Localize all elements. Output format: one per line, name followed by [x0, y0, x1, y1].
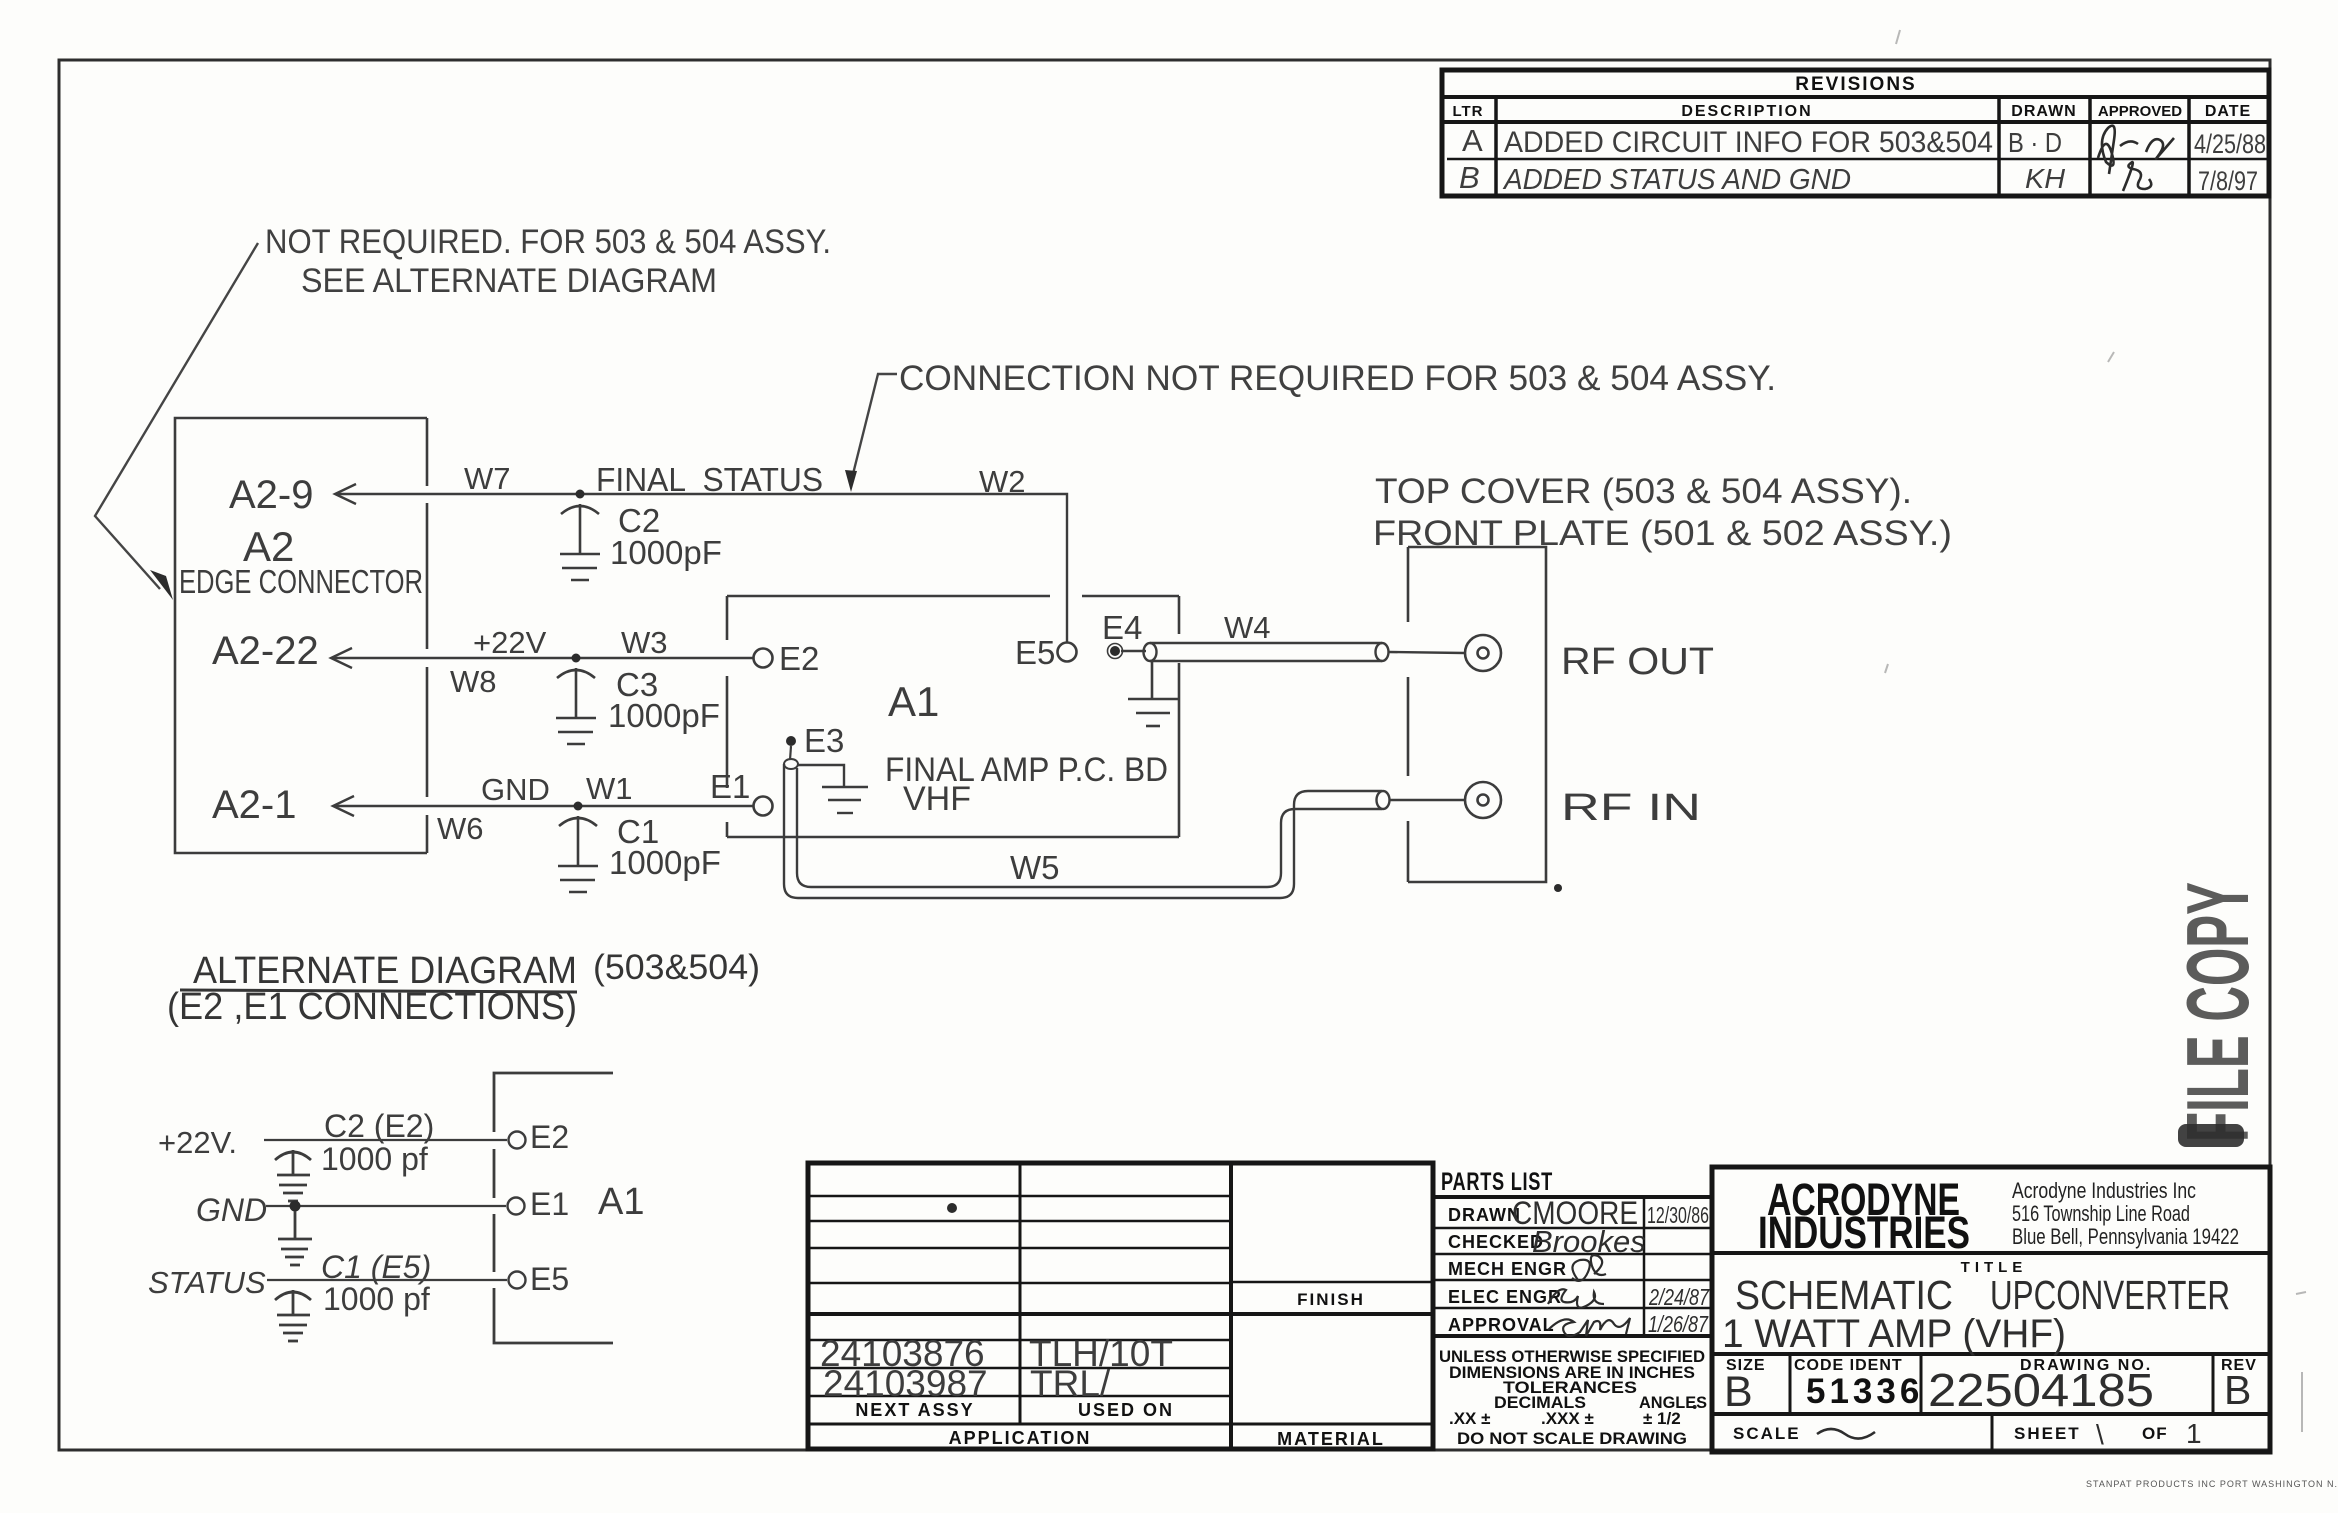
A2 edge connector box: [175, 418, 427, 853]
svg-text:E5: E5: [530, 1261, 569, 1297]
svg-text:FILE COPY: FILE COPY: [2168, 882, 2267, 1142]
svg-text:TOP COVER (503 & 504 ASSY).: TOP COVER (503 & 504 ASSY).: [1375, 472, 1912, 511]
front plate / top cover panel: [1408, 547, 1546, 882]
svg-text:B · D: B · D: [2008, 127, 2062, 158]
svg-text:VHF: VHF: [903, 780, 971, 818]
terminal E5 (alternate): [509, 1272, 526, 1289]
terminal E1 circle: [754, 797, 773, 816]
svg-text:Acrodyne Industries Inc: Acrodyne Industries Inc: [2012, 1178, 2196, 1203]
svg-text:C1 (E5): C1 (E5): [321, 1249, 431, 1285]
leader line from note to A2 connector: [95, 243, 258, 589]
FILE COPY stamp: [2168, 882, 2267, 1142]
wire E4 to coax W4: [1121, 650, 1146, 652]
handwritten title: [1722, 1272, 2230, 1356]
capacitor C3: [556, 668, 596, 744]
terminal E2 circle: [754, 649, 773, 668]
svg-text:1/26/87: 1/26/87: [1648, 1311, 1709, 1337]
leader from note down to FINAL STATUS wire: [851, 374, 897, 482]
svg-text:A2-9: A2-9: [229, 473, 314, 517]
svg-text:E3: E3: [804, 722, 844, 759]
scale squiggle: [1817, 1429, 1875, 1439]
svg-text:ELEC ENGR: ELEC ENGR: [1448, 1287, 1562, 1307]
svg-text:ADDED STATUS AND GND: ADDED STATUS AND GND: [1502, 164, 1851, 196]
ground stub below GND junction: [278, 1211, 312, 1265]
svg-text:W3: W3: [621, 625, 668, 660]
svg-text:+22V: +22V: [473, 625, 547, 660]
svg-text:B: B: [1724, 1368, 1753, 1416]
svg-text:W2: W2: [979, 464, 1026, 499]
svg-text:1000pF: 1000pF: [609, 844, 721, 881]
elec engr signature: [1548, 1289, 1604, 1307]
svg-text:CONNECTION NOT REQUIRED FOR 50: CONNECTION NOT REQUIRED FOR 503 & 504 AS…: [899, 359, 1776, 398]
terminal E5 circle: [1058, 643, 1077, 662]
svg-text:1000 pf: 1000 pf: [321, 1141, 428, 1177]
capacitor C2: [560, 504, 600, 580]
svg-text:DESCRIPTION: DESCRIPTION: [1681, 103, 1812, 120]
svg-text:A1: A1: [598, 1181, 644, 1223]
panel corner dot: [1554, 884, 1562, 892]
svg-text:51336: 51336: [1806, 1372, 1923, 1411]
A1 bracket (alternate): [494, 1073, 613, 1343]
svg-text:± 1/2: ± 1/2: [1643, 1409, 1681, 1428]
svg-text:24103987: 24103987: [823, 1363, 988, 1404]
svg-text:LTR: LTR: [1452, 103, 1483, 120]
svg-text:7/8/97: 7/8/97: [2198, 166, 2258, 196]
revisions table: [1442, 70, 2269, 196]
parts list title block: [1433, 1197, 1712, 1336]
svg-text:A2-1: A2-1: [212, 783, 297, 827]
approval signature: [1548, 1318, 1630, 1336]
svg-text:CHECKED: CHECKED: [1448, 1232, 1544, 1252]
svg-text:APPROVED: APPROVED: [2098, 103, 2182, 120]
svg-text:\: \: [2096, 1419, 2104, 1450]
svg-text:B: B: [2224, 1367, 2251, 1413]
svg-text:W5: W5: [1010, 849, 1060, 886]
node junction on GND: [290, 1201, 301, 1212]
svg-text:E2: E2: [530, 1119, 569, 1155]
wire W1/W6 (GND, A2-1 to E1): [333, 796, 753, 816]
node junction on W1: [574, 802, 583, 811]
note: NOT REQUIRED FOR 503 & 504 ASSY / SEE ALTERNATE DIAGRAM: [265, 223, 831, 300]
svg-text:RF IN: RF IN: [1561, 787, 1701, 829]
svg-text:.XXX ±: .XXX ±: [1541, 1409, 1594, 1428]
approved signature row B: [2123, 162, 2151, 191]
svg-text:PARTS LIST: PARTS LIST: [1441, 1168, 1553, 1196]
svg-text:12/30/86: 12/30/86: [1647, 1202, 1709, 1228]
title block: [1712, 1167, 2270, 1452]
svg-text:(503&504): (503&504): [593, 948, 760, 987]
capacitor C1: [558, 816, 598, 892]
svg-text:A1: A1: [888, 678, 939, 725]
alternate diagram title: [167, 948, 760, 1028]
terminal E2 (alternate): [509, 1132, 526, 1149]
wire W3/W8 (+22V, A2-22 to E2): [331, 648, 754, 668]
node junction on W3: [572, 654, 581, 663]
svg-text:E5: E5: [1015, 634, 1055, 671]
ground at W4 shield: [1128, 661, 1179, 726]
terminal E4 solder dot: [1110, 646, 1120, 656]
svg-text:°: °: [1692, 1402, 1697, 1417]
svg-text:OF: OF: [2142, 1424, 2168, 1443]
svg-text:Blue Bell, Pennsylvania 19422: Blue Bell, Pennsylvania 19422: [2012, 1224, 2239, 1249]
svg-text:E1: E1: [530, 1186, 569, 1222]
svg-text:A: A: [1462, 123, 1483, 158]
svg-text:DRAWN: DRAWN: [1448, 1205, 1521, 1225]
GND wire to E1 (alternate): [266, 1205, 506, 1207]
RF OUT connector: [1465, 635, 1501, 671]
svg-text:SEE ALTERNATE DIAGRAM: SEE ALTERNATE DIAGRAM: [301, 262, 717, 300]
svg-text:Brookes: Brookes: [1532, 1224, 1646, 1259]
svg-text:E4: E4: [1102, 609, 1142, 646]
svg-text:MATERIAL: MATERIAL: [1277, 1429, 1385, 1449]
svg-text:1000 pf: 1000 pf: [323, 1281, 430, 1317]
svg-text:EDGE CONNECTOR: EDGE CONNECTOR: [179, 563, 423, 600]
scale / sheet row: [1733, 1424, 2168, 1443]
svg-text:B: B: [1459, 160, 1480, 195]
svg-text:STATUS: STATUS: [148, 1265, 266, 1300]
svg-text:REVISIONS: REVISIONS: [1795, 74, 1916, 95]
ACRODYNE INDUSTRIES logo: [1758, 1174, 1970, 1258]
svg-text:APPROVAL: APPROVAL: [1448, 1315, 1555, 1335]
wire W7 / FINAL STATUS / W2 (A2-9 to E5): [335, 484, 1067, 642]
svg-text:SCALE: SCALE: [1733, 1424, 1801, 1443]
mech engr signature: [1572, 1255, 1606, 1281]
size / code ident / drawing no / rev: [1726, 1357, 2257, 1411]
coax cable W4: [1144, 643, 1465, 661]
svg-text:ADDED CIRCUIT INFO FOR 503&504: ADDED CIRCUIT INFO FOR 503&504: [1504, 126, 1993, 159]
svg-text:.XX ±: .XX ±: [1449, 1409, 1490, 1428]
svg-text:W8: W8: [450, 664, 497, 699]
terminal E1 (alternate): [508, 1198, 525, 1215]
svg-text:APPLICATION: APPLICATION: [949, 1428, 1092, 1448]
svg-text:E2: E2: [779, 640, 819, 677]
svg-text:MECH ENGR: MECH ENGR: [1448, 1259, 1567, 1279]
RF IN connector: [1465, 782, 1501, 818]
svg-text:GND: GND: [196, 1192, 267, 1228]
svg-text:FINISH: FINISH: [1297, 1290, 1365, 1309]
svg-text:DO NOT SCALE DRAWING: DO NOT SCALE DRAWING: [1457, 1429, 1687, 1448]
svg-text:FRONT PLATE (501 & 502 ASSY.): FRONT PLATE (501 & 502 ASSY.): [1373, 514, 1952, 553]
svg-text:W7: W7: [464, 461, 511, 496]
node junction on W7: [576, 490, 585, 499]
svg-text:2/24/87: 2/24/87: [1648, 1284, 1710, 1310]
svg-text:1: 1: [2186, 1418, 2202, 1449]
svg-text:W1: W1: [586, 771, 633, 806]
svg-text:W4: W4: [1224, 610, 1271, 645]
terminal E3 solder dot with stem: [786, 736, 796, 746]
parts list and application table: [808, 1163, 1433, 1449]
svg-text:+22V.: +22V.: [158, 1125, 237, 1160]
stamp smear: [2178, 1124, 2244, 1147]
svg-text:INDUSTRIES: INDUSTRIES: [1758, 1207, 1970, 1258]
tolerance notes: [1439, 1347, 1707, 1448]
ground wire from E3 shield: [798, 765, 868, 813]
svg-text:A2-22: A2-22: [212, 629, 319, 673]
svg-text:4/25/88: 4/25/88: [2194, 129, 2266, 159]
svg-text:DRAWN: DRAWN: [2011, 103, 2076, 120]
svg-text:FINAL STATUS: FINAL STATUS: [596, 461, 823, 498]
svg-text:TRL/: TRL/: [1030, 1363, 1111, 1404]
svg-text:NOT REQUIRED. FOR 503 & 504 AS: NOT REQUIRED. FOR 503 & 504 ASSY.: [265, 223, 831, 261]
approved signature row A: [2098, 126, 2174, 174]
svg-text:22504185: 22504185: [1928, 1364, 2154, 1416]
svg-text:RF OUT: RF OUT: [1561, 641, 1714, 683]
coax cable W5 (E3 around to RF IN): [784, 764, 1464, 898]
faint scan marks: [1885, 30, 2306, 1432]
W5 coax shield top opening: [784, 759, 798, 769]
A2 connector labels: [179, 473, 423, 827]
svg-text:STANPAT PRODUCTS INC PORT WAS: STANPAT PRODUCTS INC PORT WASHINGTON N.Y…: [2086, 1479, 2338, 1489]
svg-text:GND: GND: [481, 772, 550, 807]
svg-text:DATE: DATE: [2205, 103, 2251, 120]
A1 final amp PC board box: [727, 596, 1179, 837]
svg-text:W6: W6: [437, 811, 484, 846]
svg-text:C2 (E2): C2 (E2): [324, 1108, 434, 1144]
svg-text:E1: E1: [710, 768, 750, 805]
svg-text:SHEET: SHEET: [2014, 1424, 2081, 1443]
+22V feed wire to E2 (alternate): [264, 1139, 507, 1141]
svg-text:1000pF: 1000pF: [610, 534, 722, 571]
svg-text:516 Township Line Road: 516 Township Line Road: [2012, 1201, 2190, 1226]
svg-text:1000pF: 1000pF: [608, 697, 720, 734]
STATUS wire to E5 (alternate): [267, 1279, 507, 1281]
svg-text:1 WATT AMP (VHF): 1 WATT AMP (VHF): [1722, 1312, 2066, 1356]
svg-text:KH: KH: [2025, 163, 2066, 194]
address: [2012, 1178, 2239, 1249]
